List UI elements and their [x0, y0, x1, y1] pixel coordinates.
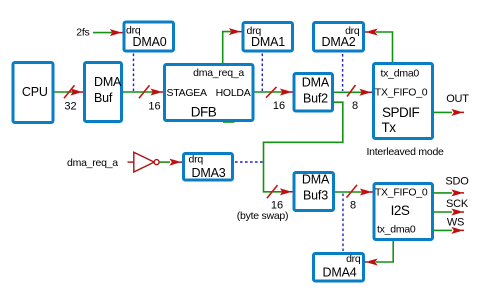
wire DFB HOLDA to DMA Buf2 [255, 91, 284, 93]
wire DMA Buf to DFB [123, 91, 153, 93]
wire DFB dma_req_a to DMA1 [223, 32, 231, 63]
svg-text:DMA4: DMA4 [323, 265, 357, 279]
svg-text:DMA3: DMA3 [192, 166, 226, 180]
arrow into DMA3 [169, 159, 182, 166]
svg-text:HOLDA: HOLDA [216, 87, 251, 99]
svg-text:TX_FIFO_0: TX_FIFO_0 [375, 86, 428, 98]
inverter (NOT gate) [134, 152, 154, 172]
svg-text:CPU: CPU [22, 85, 48, 99]
svg-text:Buf: Buf [94, 91, 113, 105]
wire SPDIF to OUT [434, 111, 452, 113]
block SPDIF Tx [374, 64, 433, 139]
svg-text:STAGEA: STAGEA [167, 87, 208, 99]
dashed drq line DMA3 [235, 161, 263, 163]
wire DMA Buf3 to I2S TX_FIFO_0 [335, 191, 362, 193]
block DMA2 [314, 23, 364, 52]
block DMA1 [243, 23, 293, 52]
svg-text:8: 8 [350, 200, 356, 212]
wire DMA Buf2 byte-swap path to DMA Buf3 [264, 102, 343, 192]
svg-text:dma_req_a: dma_req_a [67, 157, 118, 169]
bus slash 16 [267, 185, 278, 198]
svg-text:drq: drq [189, 153, 204, 165]
arrow WS [451, 227, 464, 234]
svg-text:Tx: Tx [382, 120, 397, 135]
block DMA Buf3 [294, 173, 334, 211]
svg-text:DMA2: DMA2 [322, 35, 356, 49]
bus slash 8 [347, 185, 358, 198]
svg-text:DFB: DFB [191, 105, 217, 120]
svg-text:drq: drq [346, 253, 361, 265]
arrow into DMA Buf2 [280, 89, 293, 96]
svg-text:SPDIF: SPDIF [382, 105, 420, 120]
svg-text:2fs: 2fs [76, 27, 89, 39]
arrow into DMA Buf3 [280, 188, 293, 195]
svg-text:32: 32 [64, 100, 76, 112]
svg-text:Buf2: Buf2 [303, 92, 328, 106]
wire SPDIF tx_dma0 to DMA2 [376, 32, 393, 62]
wire 2fs to DMA0 [93, 32, 112, 34]
svg-text:tx_dma0: tx_dma0 [377, 223, 416, 235]
svg-text:Buf3: Buf3 [303, 188, 328, 202]
wire DMA Buf2 to SPDIF TX_FIFO_0 [334, 91, 362, 93]
wire I2S to SCK [434, 211, 452, 213]
svg-text:Interleaved mode: Interleaved mode [367, 146, 445, 158]
arrow into DMA0 [110, 29, 123, 36]
dashed drq line DMA0 [133, 54, 135, 92]
arrow into DMA4 [365, 259, 378, 266]
wire I2S tx_dma0 to DMA4 [376, 241, 393, 262]
svg-text:WS: WS [447, 217, 464, 229]
arrow into SPDIF Tx [359, 89, 372, 96]
dashed drq line DMA4 [342, 194, 344, 252]
block DFB [165, 65, 254, 121]
svg-text:DMA: DMA [302, 76, 330, 90]
bus slash 32 [64, 85, 75, 98]
bus slash 16 [266, 87, 277, 98]
svg-text:tx_dma0: tx_dma0 [381, 67, 420, 79]
wire inverter to DMA3 [159, 161, 170, 163]
svg-text:SDO: SDO [445, 176, 469, 188]
svg-text:16: 16 [273, 100, 285, 112]
bus slash 8 [347, 85, 356, 97]
svg-text:TX_FIFO_0: TX_FIFO_0 [375, 186, 428, 198]
wire I2S to WS [434, 229, 452, 231]
dashed drq line DMA1 [261, 54, 263, 92]
svg-text:OUT: OUT [446, 93, 469, 105]
block I2S [374, 184, 433, 240]
wire CPU to DMA Buf [55, 91, 75, 93]
arrow SDO [451, 189, 464, 196]
arrow SCK [451, 209, 464, 216]
block DMA Buf2 [294, 74, 333, 112]
block DMA4 [314, 254, 364, 282]
arrow into DMA2 [365, 29, 378, 36]
arrow into DMA Buf [70, 89, 83, 96]
svg-text:I2S: I2S [391, 203, 410, 218]
block CPU [13, 63, 53, 123]
svg-text:DMA1: DMA1 [251, 35, 285, 49]
wire I2S to SDO [434, 192, 452, 194]
inverter bubble [154, 160, 159, 165]
block DMA3 [184, 154, 233, 181]
svg-text:SCK: SCK [446, 198, 469, 210]
arrow into DMA1 [229, 28, 242, 35]
block DMA Buf [85, 63, 122, 122]
wire into inverter [128, 161, 134, 163]
svg-text:DMA: DMA [302, 172, 330, 186]
arrow OUT [451, 109, 464, 116]
svg-text:8: 8 [352, 100, 358, 112]
svg-text:(byte swap): (byte swap) [237, 210, 289, 222]
dashed drq line DMA2 [342, 54, 344, 91]
arrow into I2S [360, 189, 373, 196]
svg-text:DMA0: DMA0 [133, 35, 167, 49]
svg-text:dma_req_a: dma_req_a [193, 67, 244, 79]
bus slash 16 [139, 85, 150, 98]
arrow into DFB [150, 89, 163, 96]
block DMA0 [124, 22, 174, 51]
svg-text:DMA: DMA [94, 75, 122, 89]
wire stub DFB bottom port [223, 121, 235, 123]
svg-text:16: 16 [148, 100, 160, 112]
